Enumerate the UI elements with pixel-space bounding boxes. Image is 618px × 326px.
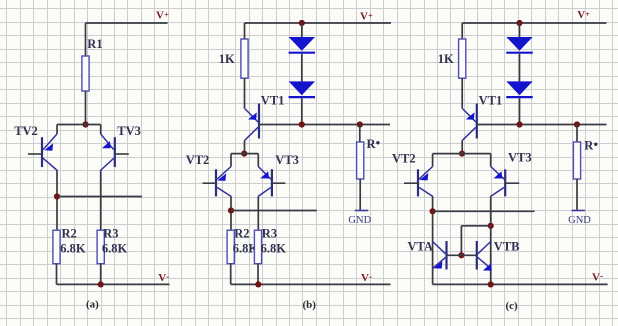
wire V- rail panel c	[433, 283, 608, 285]
transistor VT3 panel b	[258, 167, 285, 197]
wire V+ rail panel a	[86, 22, 168, 24]
transistor TV3	[100, 134, 128, 171]
wire between diodes c	[519, 54, 521, 82]
wire V- rail panel a	[57, 283, 170, 285]
wire rail to 1K resistor c	[461, 23, 463, 39]
wire VT2 collector down b	[230, 197, 232, 231]
svg-text:1K: 1K	[438, 52, 454, 66]
svg-text:VT2: VT2	[186, 153, 210, 167]
wire VT2 collector down c	[432, 197, 434, 285]
svg-text:V-: V-	[592, 272, 603, 284]
node junction below R1	[82, 121, 88, 127]
wire VT3 collector down c	[490, 197, 492, 285]
svg-text:6.8K: 6.8K	[261, 242, 287, 256]
resistor R3	[97, 230, 104, 264]
ground symbol panel b	[355, 210, 369, 212]
svg-text:(b): (b)	[303, 299, 317, 311]
resistor R2 panel b	[227, 230, 234, 264]
wire between diodes b	[301, 54, 303, 82]
svg-text:VT1: VT1	[479, 94, 503, 108]
node output tap c	[430, 208, 436, 214]
wire left emitter drop c	[432, 154, 434, 167]
transistor VT1 panel b	[245, 104, 259, 141]
resistor R1	[82, 56, 89, 91]
wire loop horizontal c	[461, 225, 490, 227]
svg-text:6.8K: 6.8K	[102, 242, 128, 256]
wire R2 to V- rail b	[230, 264, 232, 285]
wire V+ rail panel c	[462, 22, 606, 24]
wire left emitter drop a	[56, 125, 58, 135]
wire VT1 base bus panel c	[477, 124, 607, 126]
svg-text:R1: R1	[87, 37, 102, 51]
resistor 1K panel c	[459, 39, 466, 78]
svg-text:(c): (c)	[506, 300, 519, 312]
wire R3 to V- rail b	[257, 264, 259, 285]
transistor VT2 panel b	[203, 167, 232, 197]
node junction VTB emitter on V- rail	[488, 281, 494, 287]
wire 1K to VT1 emitter c	[461, 78, 463, 108]
diode VD1 panel c	[506, 37, 532, 51]
ground symbol panel c	[572, 210, 586, 212]
svg-text:(a): (a)	[86, 299, 99, 311]
wire VT3 collector down b	[257, 197, 259, 231]
wire rail to 1K resistor b	[244, 23, 246, 39]
wire TV3 collector down	[100, 171, 102, 231]
svg-text:VT3: VT3	[275, 153, 299, 167]
wire from rail to R1	[85, 23, 87, 56]
node output tap a	[54, 193, 60, 199]
diode VD1 panel b	[289, 37, 315, 51]
wire diode string bottom b	[301, 98, 303, 124]
wire right emitter drop a	[100, 125, 102, 135]
wire left emitter drop b	[230, 154, 232, 167]
wire emitter bus panel b	[231, 153, 258, 155]
wire R* to ground b	[359, 179, 361, 211]
svg-text:VTA: VTA	[408, 240, 433, 254]
wire right emitter drop b	[257, 154, 259, 167]
node junction diodes to base b	[299, 121, 305, 127]
wire V- rail panel b	[231, 283, 391, 285]
transistor TV2	[28, 134, 57, 171]
svg-text:R2: R2	[62, 227, 77, 241]
svg-text:1K: 1K	[219, 52, 235, 66]
wire base bus to R* c	[576, 125, 578, 143]
wire emitter bus panel c	[433, 153, 491, 155]
node junction pair top c	[459, 151, 465, 157]
node junction bases VTA VTB	[458, 252, 464, 258]
svg-text:GND: GND	[348, 215, 371, 226]
wire V+ rail panel b	[245, 22, 392, 24]
wire VT1 collector down c	[461, 140, 463, 153]
svg-text:V-: V-	[361, 272, 372, 284]
diode VD2 panel b	[289, 81, 315, 95]
transistor VT2 panel c	[404, 167, 433, 197]
wire base bus VTA VTB	[447, 254, 477, 256]
svg-text:R3: R3	[262, 227, 277, 241]
resistor R* panel c	[573, 142, 580, 179]
wire emitter bus panel a	[57, 124, 101, 126]
node junction R3 on V- rail b	[255, 281, 261, 287]
wire R* to ground c	[576, 179, 578, 211]
svg-text:VT1: VT1	[261, 94, 285, 108]
svg-text:R2: R2	[234, 227, 249, 241]
transistor VTA	[433, 241, 447, 270]
svg-text:VT3: VT3	[508, 150, 532, 164]
diode VD2 panel c	[506, 81, 532, 95]
svg-text:V-: V-	[158, 272, 169, 284]
resistor R* panel b	[357, 142, 364, 179]
wire 1K to VT1 emitter b	[244, 78, 246, 108]
wire VT1 base bus panel b	[259, 124, 390, 126]
node junction R* to base c	[574, 121, 580, 127]
wire diode string top b	[301, 23, 303, 37]
resistor R2	[53, 230, 60, 264]
wire right emitter drop c	[490, 154, 492, 167]
svg-text:VTB: VTB	[494, 240, 520, 254]
wire base bus to R* b	[359, 125, 361, 143]
transistor VTB	[477, 241, 492, 271]
wire output tap b	[231, 210, 317, 212]
node junction R3 on V- rail	[98, 281, 104, 287]
resistor 1K panel b	[241, 39, 248, 78]
node junction R* to base b	[357, 121, 363, 127]
transistor VT1 panel c	[462, 104, 476, 141]
svg-text:6.8K: 6.8K	[60, 242, 86, 256]
wire R2 to V- rail	[56, 264, 58, 285]
node junction VTB collector loop c	[488, 223, 494, 229]
wire diode string top c	[519, 23, 521, 37]
resistor R3 panel b	[254, 230, 261, 264]
svg-text:GND: GND	[568, 215, 591, 226]
transistor VT3 panel c	[490, 167, 519, 197]
wire TV2 collector down	[56, 171, 58, 231]
wire output tap a	[57, 196, 142, 198]
wire output tap c	[433, 210, 535, 212]
node junction diodes to base c	[516, 121, 522, 127]
svg-text:R3: R3	[103, 227, 118, 241]
wire VT1 collector down b	[244, 140, 246, 153]
svg-text:TV2: TV2	[14, 124, 38, 138]
svg-text:VT2: VT2	[392, 151, 416, 165]
node junction pair top b	[241, 151, 247, 157]
wire R1 to junction	[85, 91, 87, 125]
node junction diodes top b	[299, 20, 305, 26]
wire R3 to V- rail	[100, 264, 102, 285]
svg-text:TV3: TV3	[117, 124, 141, 138]
node junction diodes top c	[516, 20, 522, 26]
wire diode string bottom c	[519, 98, 521, 124]
node output tap b	[228, 207, 234, 213]
wire loop vertical to bases c	[460, 226, 462, 256]
